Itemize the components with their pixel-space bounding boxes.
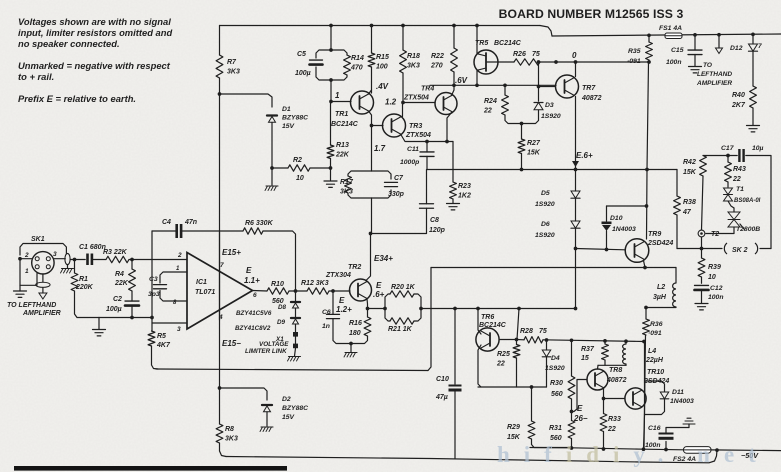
svg-text:R25: R25 — [497, 351, 510, 358]
wire TR3 collector — [403, 103, 436, 117]
svg-text:1000p: 1000p — [400, 159, 419, 166]
ground TR2 emitter — [344, 353, 357, 358]
transistor TR5 — [474, 50, 498, 74]
label R38 47 — [682, 199, 696, 216]
svg-text:TR4: TR4 — [421, 86, 434, 93]
svg-text:FS1 4A: FS1 4A — [659, 25, 682, 32]
capacitor C12 — [695, 285, 709, 290]
svg-text:10µ: 10µ — [752, 145, 764, 152]
svg-text:TR2: TR2 — [348, 264, 361, 271]
node rail-R15 — [370, 24, 374, 28]
wire C10 stem — [454, 309, 456, 459]
wire TR5 top stem — [476, 26, 478, 54]
node rail-R31 — [570, 446, 574, 450]
connector SK1 body — [32, 252, 54, 274]
capacitor C1 — [86, 254, 93, 266]
wire SK1 screen lug — [42, 274, 44, 282]
svg-text:E: E — [376, 281, 382, 290]
wire SK1 box — [20, 244, 66, 256]
label TR3 ZTX504 — [405, 123, 431, 139]
wire C8 stems — [371, 170, 427, 234]
ground under D2 — [260, 427, 273, 432]
svg-text:ZTX304: ZTX304 — [325, 272, 351, 279]
svg-text:TR10: TR10 — [647, 369, 664, 376]
wire R17-C7 loop — [348, 171, 391, 198]
svg-text:560: 560 — [550, 435, 562, 442]
wire TR4 collector up — [452, 85, 455, 95]
label D11 1N4003 — [670, 389, 694, 405]
svg-text:R1: R1 — [79, 276, 88, 283]
wire fb top to C4 — [152, 230, 175, 232]
label pin3 — [177, 326, 181, 333]
wire D3 stem — [538, 62, 540, 101]
resistor R37 — [602, 344, 609, 360]
label FS2 4A — [673, 456, 696, 463]
node TR9-emitter-node — [643, 266, 647, 270]
wire output tap stem — [718, 35, 720, 48]
svg-text:15V: 15V — [282, 414, 296, 421]
wire TR10 base wire — [604, 398, 625, 400]
label D1 BZY88C 15V — [282, 106, 308, 130]
wire D10 bottom stem — [606, 231, 608, 250]
wire pin1 stub and C3 loop — [160, 272, 187, 301]
wire C4 to R6 — [182, 230, 243, 232]
ground under R13 — [324, 181, 337, 187]
wire 340 line — [543, 340, 644, 342]
node TR2-emitter — [366, 307, 370, 311]
svg-text:1S920: 1S920 — [541, 113, 561, 120]
svg-text:L4: L4 — [648, 348, 656, 355]
label pin1 pin8 — [173, 266, 180, 306]
fuse FS1 — [665, 33, 682, 39]
wire C12 ground stem — [701, 290, 703, 303]
svg-text:40872: 40872 — [581, 95, 602, 102]
diode D5 — [571, 191, 580, 198]
svg-text:AMPLIFIER: AMPLIFIER — [22, 310, 61, 317]
capacitor C11 — [420, 152, 434, 157]
label C7 330p — [388, 175, 405, 198]
resistor R13 — [327, 145, 334, 159]
label TO LEFTHAND AMPLIFIER right — [696, 62, 732, 87]
wire TR8 base — [572, 380, 588, 412]
wire SK1 pin3 wire — [54, 258, 65, 260]
wire D8-D9 — [295, 309, 297, 319]
svg-text:R22: R22 — [431, 53, 444, 60]
wire TR4 emitter down — [447, 113, 452, 142]
wire TR10 emitter stem — [644, 415, 645, 450]
svg-text:D11: D11 — [672, 389, 684, 396]
resistor R10 — [267, 288, 289, 294]
label D10 1N4003 — [610, 215, 636, 233]
wire D11 box — [645, 381, 665, 415]
svg-text:4: 4 — [218, 314, 223, 321]
transistor TR10 — [625, 388, 646, 409]
resistor R15 — [368, 53, 375, 67]
node gnd-line-C2 — [130, 316, 134, 320]
svg-text:input, limiter resistors omitt: input, limiter resistors omitted and — [18, 27, 172, 38]
wire TR1 base — [331, 101, 351, 103]
wire R36 stem — [644, 308, 646, 450]
diode D2 zener — [262, 405, 272, 412]
pin SK1-3 — [46, 257, 50, 261]
capacitor C8 — [420, 204, 434, 209]
connector screen lug — [36, 282, 50, 287]
wire 308 line — [421, 308, 576, 310]
svg-text:R8: R8 — [225, 426, 234, 433]
svg-text:3K3: 3K3 — [227, 68, 240, 75]
wire pin3 wire — [152, 322, 187, 324]
wire D5-D6 — [575, 199, 577, 222]
diode D1 zener — [267, 116, 277, 123]
node rail-R22 — [452, 24, 456, 28]
svg-text:1.2: 1.2 — [385, 98, 397, 107]
node D1-R2 junction — [270, 166, 274, 170]
svg-text:3K3: 3K3 — [407, 62, 420, 69]
svg-text:3K3: 3K3 — [225, 435, 238, 442]
ground bead — [61, 269, 74, 274]
resistor R22 — [451, 48, 458, 72]
wire loop left — [368, 308, 386, 310]
label L2 3uH — [653, 284, 667, 301]
label E34+ — [374, 254, 393, 263]
label R27 15K — [527, 140, 541, 156]
resistor R18 — [400, 50, 407, 73]
wire C5 loop to TR1 base — [330, 80, 332, 102]
wire TR5 base stub — [487, 61, 514, 63]
label TR1 BC214C — [331, 111, 359, 128]
label pin2 — [177, 252, 182, 259]
wire R20 loop — [385, 294, 421, 309]
wire R10 to R12 — [289, 290, 307, 292]
wire TR1 emitter line — [369, 111, 372, 234]
diode D6 — [571, 221, 580, 228]
label 1 — [335, 91, 340, 100]
svg-text:3p3: 3p3 — [148, 291, 160, 298]
label R33 22 — [607, 416, 621, 433]
wire R25 stem — [516, 340, 518, 388]
wire TR7 collector — [575, 62, 577, 77]
wire R15 stem — [371, 26, 373, 54]
wire TR6 emitter — [478, 345, 481, 387]
svg-text:22: 22 — [607, 426, 616, 433]
label -50V — [741, 451, 759, 460]
svg-text:R3 22K: R3 22K — [103, 249, 128, 256]
svg-text:D2: D2 — [282, 396, 291, 403]
node rail-C16 — [664, 448, 668, 452]
label R37 15 — [581, 346, 595, 362]
resistor R23 — [450, 182, 457, 199]
svg-text:E.6+: E.6+ — [576, 151, 593, 160]
svg-text:.6+: .6+ — [373, 290, 385, 299]
svg-text:to + rail.: to + rail. — [18, 71, 54, 82]
label R21 1K — [388, 326, 413, 333]
wire gnd stem TR2 — [350, 344, 352, 353]
label SK1 — [31, 236, 45, 243]
svg-text:BZY41C8V2: BZY41C8V2 — [235, 325, 271, 332]
wire D2 feed — [220, 388, 268, 400]
svg-text:E15+: E15+ — [222, 248, 241, 257]
label C10 47u — [435, 376, 449, 401]
wire TR5 to .6V — [476, 70, 478, 85]
label TO LEFTHAND AMPLIFIER — [7, 302, 61, 317]
terminal arrow — [39, 293, 47, 299]
bottom black bar — [14, 466, 287, 471]
wire R39 stem — [701, 249, 703, 284]
svg-text:SK1: SK1 — [31, 236, 45, 243]
diode D10 — [602, 222, 612, 232]
svg-text:BZY41C5V6: BZY41C5V6 — [236, 310, 272, 317]
wire C15 stem — [694, 35, 696, 50]
label D2 BZY88C 15V — [282, 396, 308, 421]
node R1 tap — [73, 258, 77, 262]
svg-text:R23: R23 — [458, 183, 471, 190]
label E15- — [222, 339, 241, 348]
svg-text:TR1: TR1 — [335, 111, 348, 118]
svg-text:1K2: 1K2 — [458, 192, 471, 199]
resistor R2 — [288, 165, 310, 171]
node coll-206 — [645, 204, 649, 208]
label C12 100n — [708, 285, 724, 301]
node loop-right — [419, 307, 423, 311]
svg-text:LIMITER LINK: LIMITER LINK — [245, 348, 287, 355]
svg-text:3: 3 — [177, 326, 181, 333]
svg-text:180: 180 — [349, 330, 361, 337]
label R24 22 — [483, 98, 497, 114]
svg-text:R4: R4 — [115, 271, 124, 278]
label R18 3K3 — [407, 53, 420, 69]
wire R38 top — [676, 170, 678, 197]
label TR9 2SD424 — [647, 231, 673, 247]
svg-text:C5: C5 — [297, 51, 306, 58]
svg-text:1: 1 — [335, 91, 340, 100]
wire TR9 emitter — [644, 261, 646, 268]
node 340-L4 — [624, 339, 628, 343]
svg-text:C8: C8 — [430, 217, 439, 224]
label R15 100 — [376, 54, 389, 70]
node R2-R13 junction — [329, 166, 333, 170]
node rail-R35 — [647, 33, 651, 37]
wire D6 to base node — [575, 229, 577, 249]
svg-text:Voltages shown are with no sig: Voltages shown are with no signal — [18, 16, 171, 27]
svg-text:LEFTHAND: LEFTHAND — [697, 71, 732, 78]
svg-text:22µH: 22µH — [645, 357, 664, 364]
wire bottom rail — [530, 448, 781, 451]
svg-text:E15−: E15− — [222, 339, 241, 348]
svg-text:7: 7 — [220, 262, 224, 269]
wire D4 stem — [546, 340, 548, 387]
ground SK1 — [14, 285, 27, 297]
svg-text:VOLTAGE: VOLTAGE — [259, 341, 289, 348]
svg-text:R38: R38 — [683, 199, 696, 206]
svg-text:1.2+: 1.2+ — [336, 305, 352, 314]
wire D12 stem — [752, 34, 754, 44]
resistor R7 — [216, 55, 223, 78]
resistor R28 — [524, 337, 543, 343]
wire opamp supply vertical — [219, 232, 221, 320]
node R7-bottom junction — [218, 92, 222, 96]
label C1 680n — [79, 244, 106, 251]
wire left bus — [220, 26, 227, 457]
diode D3 — [534, 103, 543, 110]
svg-text:R6 330K: R6 330K — [245, 220, 274, 227]
svg-text:R42: R42 — [683, 159, 696, 166]
label .4V — [376, 82, 389, 91]
svg-text:100µ: 100µ — [295, 70, 311, 77]
wire R16 stem — [351, 309, 368, 344]
label R20 1K — [391, 284, 416, 291]
node E26 node — [570, 410, 574, 414]
node TR8-R33 — [602, 397, 606, 401]
svg-text:E: E — [246, 266, 252, 275]
svg-text:R29: R29 — [507, 424, 520, 431]
label TR6 BC214C — [479, 314, 507, 329]
wire TR6base up — [517, 309, 519, 340]
resistor R16 — [364, 317, 371, 336]
diode D9 zener — [291, 318, 300, 324]
wire bead ground stem — [67, 265, 69, 268]
fuse FS2 — [684, 447, 712, 454]
node SK1 left — [18, 257, 22, 261]
ground under D1 — [265, 186, 278, 191]
wire R22 stem — [453, 26, 455, 86]
wire R2 right stub — [310, 167, 331, 169]
svg-text:.6V: .6V — [455, 76, 468, 85]
label R3 22K — [103, 249, 128, 256]
wire triac to T2 — [706, 227, 734, 234]
label C11 1000p — [400, 146, 419, 166]
wire drive line 267 — [431, 267, 676, 269]
label D6 1S920 — [535, 221, 555, 239]
svg-text:C12: C12 — [710, 285, 723, 292]
svg-text:D10: D10 — [610, 215, 623, 222]
node zero-R35 — [647, 60, 651, 64]
wire C17 right — [746, 156, 771, 249]
svg-text:22: 22 — [732, 176, 741, 183]
svg-text:D9: D9 — [277, 319, 286, 326]
resistor R21 — [390, 318, 414, 324]
capacitor C16 — [659, 433, 674, 440]
svg-text:47µ: 47µ — [435, 394, 448, 401]
wire bead to C1 — [70, 259, 85, 261]
label pin3 sk1 — [53, 251, 57, 258]
ground under C2 line — [93, 330, 106, 336]
resistor R24 — [502, 95, 509, 115]
wire C17 line — [703, 155, 737, 157]
svg-text:R5: R5 — [157, 333, 166, 340]
svg-text:3K3: 3K3 — [340, 188, 353, 195]
wire R27 stem — [521, 124, 523, 170]
svg-text:R36: R36 — [650, 321, 663, 328]
wire pin6 stub — [253, 290, 268, 293]
node R18-TR4base — [401, 101, 405, 105]
label R43 22 — [732, 166, 746, 183]
resistor R33 — [600, 414, 607, 432]
svg-text:C2: C2 — [113, 296, 122, 303]
transistor TR9 — [625, 239, 649, 263]
label R40 2K7 — [731, 92, 746, 109]
svg-text:D5: D5 — [541, 190, 550, 197]
svg-text:2: 2 — [177, 252, 182, 259]
wire TR8 emitter — [603, 388, 605, 399]
transistor TR7 — [556, 75, 579, 98]
wire D10 top link — [607, 206, 647, 221]
node R3-R4 — [130, 258, 134, 262]
node rail-C15 — [693, 33, 697, 37]
label R29 15K — [507, 424, 521, 441]
svg-text:R18: R18 — [407, 53, 420, 60]
label X1 VOLTAGE LIMITER LINK — [245, 336, 289, 355]
wire SK2 line — [677, 248, 771, 250]
wire ground stem 99 — [98, 318, 100, 330]
node D10-base — [605, 248, 609, 252]
label C3 3p3 — [148, 276, 160, 298]
wire R13 stem — [330, 102, 332, 169]
svg-text:C4: C4 — [162, 219, 171, 226]
svg-text:2SD424: 2SD424 — [647, 240, 673, 247]
wire zero line — [540, 61, 649, 63]
note text block — [18, 16, 172, 104]
connector SK2 — [724, 243, 757, 254]
label R30 560 — [550, 380, 563, 398]
capacitor C3 — [154, 285, 167, 289]
label pin4 — [218, 314, 223, 321]
wire C1 to R3 — [93, 259, 106, 261]
resistor R35 — [646, 42, 653, 60]
svg-text:SK 2: SK 2 — [732, 247, 748, 254]
wire lower box bottom — [156, 369, 428, 371]
label R22 270 — [430, 53, 444, 69]
label C5 100u — [295, 51, 311, 77]
wire R31 bottom — [571, 439, 573, 449]
resistor R17 — [345, 176, 352, 193]
wire C16 stem — [665, 442, 667, 450]
wire R30 stem — [571, 340, 573, 376]
svg-text:E34+: E34+ — [374, 254, 393, 263]
wire R23 stem — [452, 142, 454, 204]
node .6V-TR5 — [475, 83, 479, 87]
svg-text:R43: R43 — [733, 166, 746, 173]
node C11 top — [425, 140, 429, 144]
svg-text:E: E — [577, 404, 583, 413]
svg-text:T1: T1 — [736, 186, 744, 193]
svg-text:TO LEFTHAND: TO LEFTHAND — [7, 302, 56, 309]
svg-text:15V: 15V — [282, 123, 296, 130]
resistor R12 — [307, 288, 329, 294]
svg-text:0: 0 — [572, 51, 577, 60]
svg-text:C16: C16 — [648, 425, 661, 432]
label pin6 — [253, 292, 257, 299]
svg-text:no speaker connected.: no speaker connected. — [18, 38, 120, 49]
wire T2 stem — [701, 237, 703, 249]
wire R43 stem — [727, 156, 729, 163]
wire R5 stem — [152, 323, 159, 369]
wire TR6 collector — [478, 309, 481, 335]
wire D2 ground stem — [266, 412, 268, 426]
svg-text:BZY88C: BZY88C — [282, 405, 308, 412]
node TR3 base tap — [370, 124, 374, 128]
svg-text:R33: R33 — [608, 416, 621, 423]
capacitor C2 — [125, 301, 139, 306]
wire lower rail — [226, 450, 717, 463]
node rail-output-tap — [717, 33, 721, 37]
label T2800B — [736, 226, 760, 233]
label R17 3K3 — [340, 179, 354, 195]
label R14 470 — [350, 55, 364, 71]
svg-text:1S920: 1S920 — [545, 365, 565, 372]
wire ground line 317 — [99, 317, 152, 319]
label D12 — [730, 43, 762, 52]
svg-text:1.1+: 1.1+ — [244, 276, 260, 285]
